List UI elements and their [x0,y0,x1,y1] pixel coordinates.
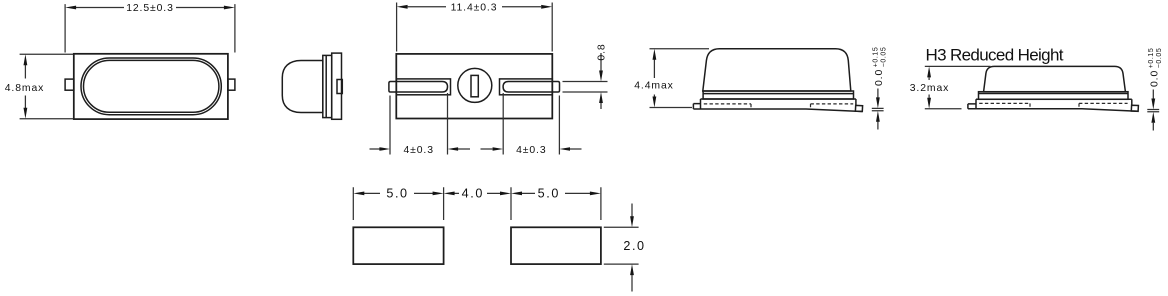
svg-text:0.0: 0.0 [874,69,885,86]
svg-text:4.0: 4.0 [462,186,484,200]
svg-text:11.4±0.3: 11.4±0.3 [451,3,498,14]
svg-text:3.2max: 3.2max [910,83,949,94]
svg-text:−0.05: −0.05 [881,47,888,67]
svg-text:+0.15: +0.15 [1148,48,1155,68]
svg-text:−0.05: −0.05 [1156,48,1163,68]
svg-text:H3 Reduced Height: H3 Reduced Height [926,46,1064,65]
svg-text:4.8max: 4.8max [5,83,44,94]
svg-text:5.0: 5.0 [386,186,408,200]
svg-text:12.5±0.3: 12.5±0.3 [126,3,174,14]
svg-text:0.0: 0.0 [1149,70,1160,87]
svg-text:+0.15: +0.15 [873,47,880,67]
svg-text:5.0: 5.0 [538,186,560,200]
svg-text:0.8: 0.8 [596,43,607,60]
svg-text:4.4max: 4.4max [634,80,673,91]
svg-text:4±0.3: 4±0.3 [403,145,433,156]
svg-text:2.0: 2.0 [623,239,645,253]
svg-text:4±0.3: 4±0.3 [516,145,546,156]
